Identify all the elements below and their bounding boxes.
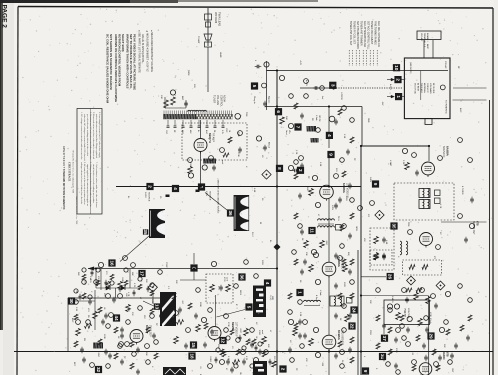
svg-text:voltmeter; AC voltages measure: voltmeter; AC voltages measured with 100… [83,114,86,161]
svg-text:4. Low voltage measured at 117: 4. Low voltage measured at 117 volts ac … [98,112,101,158]
svg-text:● MEASURED REMOTELY SOURCE: ● MEASURED REMOTELY SOURCE [150,30,153,72]
capacitor C-bypass [263,102,267,104]
callout square 22 [348,322,355,329]
svg-text:VHF ANT: VHF ANT [420,33,423,42]
leader to sq13 [143,301,154,306]
volume control inner pin [407,316,412,321]
dashed box discriminator [370,250,392,265]
svg-text:.0047: .0047 [325,240,327,246]
svg-text:RF AMP: RF AMP [211,133,214,142]
svg-text:220K: 220K [103,334,105,339]
pin circles near tube [188,158,193,163]
wire x329 IF chain mid [328,199,330,262]
callout square 1 2nd IF [296,289,303,296]
callout square 4 spine [326,132,333,139]
callout square 2 tuner [394,76,401,83]
svg-text:2. Resistors are 1/2 watt unle: 2. Resistors are 1/2 watt unless noted o… [89,112,92,160]
callout square 37 [381,335,388,342]
leader line from sq36 [205,193,227,211]
sync tube pins [125,342,130,347]
audio out pins [396,328,401,333]
wire from sq30 [75,300,95,302]
callout square 13 [190,341,197,348]
right column pins [458,138,463,143]
svg-text:TO ANT: TO ANT [197,36,200,44]
cluster resistors bottom mid [177,320,184,325]
callout square 8 [276,165,283,172]
svg-text:7. Coil resistance values unde: 7. Coil resistance values under one ohm … [95,162,98,207]
svg-text:Bifocal: Bifocal [268,142,270,149]
svg-text:35: 35 [143,229,148,235]
tube V2 6AU8A 1st video IF [320,185,334,199]
AGC line pin [304,79,309,84]
callout square 2 on bus [146,183,153,190]
svg-text:6: 6 [276,110,281,113]
svg-text:4.5mh: 4.5mh [429,318,431,324]
wire volume box vertical [428,296,430,375]
svg-text:1 MEG: 1 MEG [391,296,393,303]
filled diamond on video bus [274,244,281,251]
leader to W4 [217,310,246,318]
ratio det transformer [400,241,402,255]
svg-text:mmf: mmf [226,277,228,281]
bottom-left caps [82,358,86,360]
wire y70 node row [267,70,278,72]
right column caps [470,198,474,200]
caps bottom mid [184,344,188,346]
callout square 11 [308,227,315,234]
svg-text:12K: 12K [175,280,177,284]
svg-text:AGC: AGC [205,130,208,135]
svg-text:4.5MC: 4.5MC [389,160,391,167]
svg-text:ANT: ANT [181,96,184,101]
3rd IF pins [313,327,318,332]
callout square 12 [219,337,226,344]
callout square 1 on bus [198,183,205,190]
svg-text:TO TUNER(S): TO TUNER(S) [445,100,447,114]
svg-text:+ DENOTES CHNG GANGED TUNING: + DENOTES CHNG GANGED TUNING [217,178,220,214]
resistor bottom mid 2 [244,329,249,336]
callout square 9 above tube [327,151,334,158]
wire tuner input [165,107,186,109]
wire to sound tube [428,146,430,161]
capacitor bottom edge [230,368,234,370]
svg-text:130V: 130V [343,282,345,287]
coil pair IF transformer [318,219,335,221]
open square align [347,298,353,304]
sound IF pin circles [402,148,407,153]
svg-text:6.8K: 6.8K [385,240,387,245]
pin circles sync2 [106,294,111,299]
wire tube down [200,152,202,187]
wire x329 to bottom [328,349,330,375]
svg-text:PH: PH [83,338,85,341]
svg-text:SET AGC CONTROL FULL: SET AGC CONTROL FULL [367,21,370,50]
svg-text:J-PROD: J-PROD [340,92,342,100]
svg-text:COILS FIT: COILS FIT [426,83,428,93]
svg-text:SET ATTENUATOR KNOB: SET ATTENUATOR KNOB [356,21,359,49]
callout square 6 [275,108,282,115]
svg-text:2: 2 [298,169,303,172]
svg-text:PEAK VIDEO SIGNAL AT PICTURE T: PEAK VIDEO SIGNAL AT PICTURE TUBE [133,34,137,90]
arrow to square 1 [387,96,393,98]
diamond sound test [375,210,384,219]
sync resistors [106,282,111,289]
2nd IF pins [313,252,318,257]
top scan edge strip [0,0,130,3]
pin circle w sq [299,156,304,161]
pin circle 3rd IF [288,319,293,324]
wire vertical bus x358 [357,250,359,375]
pin circle above coil [202,165,207,170]
callout square 7 [294,123,301,130]
svg-text:SOURCE: SOURCE [147,192,149,202]
waveform photo W1 [149,209,165,238]
svg-text:AGC: AGC [459,108,462,113]
diamond audio 2 [436,281,445,290]
svg-text:4.5mh: 4.5mh [319,290,321,297]
pin circle low [256,136,261,141]
pin circles sync [98,262,103,267]
svg-text:AGC: AGC [71,318,74,323]
pin circle agc [211,261,216,266]
svg-text:SET TO PRODUCE 30 VOLTS PEAK-T: SET TO PRODUCE 30 VOLTS PEAK-TO- [129,34,133,89]
svg-text:16: 16 [110,260,115,266]
svg-text:33K: 33K [145,352,147,356]
svg-text:6. Voltages shown in boxes tak: 6. Voltages shown in boxes taken with no… [89,162,92,206]
svg-text:.0047: .0047 [239,328,241,334]
resistor grid [309,189,314,196]
extra pin circles scatter [289,94,294,99]
agc box components [210,285,215,292]
resistor bottom edge [272,361,277,367]
svg-text:4: 4 [327,134,332,137]
svg-text:LOW BAND: LOW BAND [429,83,432,94]
svg-text:OR PK: OR PK [318,115,320,122]
svg-text:6BZ6: 6BZ6 [239,290,241,296]
waveform photo W6 bottom [253,361,267,375]
svg-text:AMP: AMP [426,44,429,49]
callout square 2 3rd IF [279,365,286,372]
svg-text:W: W [259,222,261,224]
svg-text:+14V: +14V [299,60,301,66]
border frame right rule [492,8,494,375]
bottom-left filler pins [82,268,86,272]
wire antenna to tuner strip [207,47,209,92]
wire vertical bus x361 [360,146,362,375]
svg-text:22: 22 [350,323,355,329]
svg-text:Chng In: Chng In [253,96,255,104]
svg-text:3.3K: 3.3K [319,162,321,167]
svg-text:GRN: GRN [355,226,357,231]
svg-text:.0047: .0047 [97,352,99,358]
waveform photo W4 [253,286,266,318]
svg-text:330K: 330K [199,302,201,307]
resistor column x348 [345,315,350,322]
svg-text:mmf: mmf [221,160,223,164]
border frame top rule [18,7,493,9]
diode D2 sync [121,286,125,290]
wire vertical x268 upper [266,61,268,110]
capacitor stub [256,65,258,69]
callout square 6 agc [190,264,197,271]
svg-text:WAVEFORMS TAKEN WITH CONTROLS: WAVEFORMS TAKEN WITH CONTROLS [126,34,130,89]
tuner output hatched coil [203,159,216,164]
wire sync vertical [100,269,102,290]
callout square 29 [427,332,434,339]
left margin shading [0,0,3,330]
resistor agc2 [196,325,201,332]
svg-text:5. All controls set at for nor: 5. All controls set at for normal operat… [83,162,86,205]
svg-text:AT REST: AT REST [417,83,420,92]
svg-text:NO 94: NO 94 [223,95,226,103]
svg-text:56K: 56K [285,116,287,120]
pin circles row bottom [220,360,225,365]
dashed box agc [206,274,233,303]
svg-text:AUDIO: AUDIO [442,352,445,360]
svg-text:● SEE PARTS LIST FOR ALTERNAT: ● SEE PARTS LIST FOR ALTERNATE [138,30,141,73]
svg-text:unless otherwise noted and lin: unless otherwise noted and line voltage … [95,114,98,158]
svg-text:12: 12 [221,338,226,344]
svg-text:3. Measured values are from sc: 3. Measured values are from schematic to… [92,112,95,160]
svg-text:6AU8A: 6AU8A [445,146,449,157]
open callout square [336,225,342,231]
svg-text:36: 36 [228,210,233,216]
resistors 2nd IF [309,265,314,272]
capacitor on AGC line [314,86,316,90]
tuner box inner vertical [420,71,422,100]
wire main horizontal bus y186 [116,186,361,188]
border frame left rule [17,7,18,375]
svg-text:45V: 45V [363,238,365,242]
svg-text:1: 1 [298,291,303,294]
svg-text:A-523: A-523 [389,84,392,90]
svg-text:9: 9 [373,183,378,186]
svg-text:105V: 105V [331,205,333,211]
svg-text:6T8: 6T8 [445,352,449,357]
wire x329 IF chain low [328,276,330,335]
svg-text:30: 30 [69,298,74,304]
arrowhead on AGC line [333,87,337,90]
tube pin circles [312,175,317,180]
svg-text:20V AC: 20V AC [444,61,447,69]
svg-text:circuit breaker reset all read: circuit breaker reset all readings are p… [92,164,95,204]
callout square 44 [113,314,120,321]
wire sound takeoff y146 [361,145,429,147]
tuner coil strip checkered section [196,114,233,119]
tube V9 6T8 audio output [419,363,432,375]
hatched peaking coil spine1 [307,126,317,132]
svg-text:mmf: mmf [261,330,263,334]
tube V5 6AU8A 2nd video IF [322,262,336,276]
right column wires [453,87,487,89]
svg-text:135V: 135V [261,260,263,265]
svg-text:A-523: A-523 [305,80,308,86]
svg-text:44: 44 [114,315,119,321]
svg-text:68K: 68K [131,272,133,276]
wire audio [361,295,429,297]
caps 3rd IF [303,334,307,336]
svg-text:AGC ATTENUATOR ADJ: AGC ATTENUATOR ADJ [363,21,366,47]
svg-text:OSC: OSC [225,128,227,133]
svg-text:ROTATION (CONTROL VIEWED FROM: ROTATION (CONTROL VIEWED FROM [118,34,122,87]
svg-text:6CB6A: 6CB6A [337,330,341,341]
resistor bottom mid 4 [262,337,267,344]
pin circle right of strip [235,114,241,120]
svg-text:255V: 255V [369,330,371,335]
svg-text:10K: 10K [160,95,162,99]
tuner caps row [167,120,169,126]
extra small resistors scatter [294,103,298,109]
wire video IF spine upper [265,106,362,108]
svg-text:140V: 140V [369,177,371,183]
svg-text:TUNER RF COIL SET: TUNER RF COIL SET [353,21,355,45]
svg-text:SHAFT END): SHAFT END) [121,34,125,52]
svg-text:24: 24 [352,307,357,313]
volume control box pin [387,304,392,309]
svg-text:4: 4 [265,282,270,285]
pin circles bottom-left [76,320,81,325]
svg-text:per volt voltmeter readings ta: per volt voltmeter readings taken at tub… [86,114,89,156]
svg-text:4.5mh: 4.5mh [315,115,317,122]
VHF antenna terminal board [417,31,441,40]
callout square 13 photo W3 [154,303,160,309]
tube V3 6AU8A sound IF [422,162,435,175]
svg-text:-5 (V)-: -5 (V)- [269,295,271,301]
extra capacitors scatter [300,114,304,116]
pin circles bottom right [412,360,417,365]
svg-text:3RD VIDEO IF: 3RD VIDEO IF [340,330,342,346]
wire sync bus y269 [88,268,277,270]
svg-text:15: 15 [191,342,196,348]
audio caps [405,298,409,300]
pin circles sound lower [358,206,363,211]
pin circle below [311,249,316,254]
pin circles bottom mid [174,311,179,316]
callout square 18 [188,352,195,359]
dashed box ratio det [403,260,442,275]
svg-text:47K: 47K [305,358,307,362]
resistor 56K [280,117,285,124]
callout square 36b [238,273,245,280]
callout square 4 photo [264,279,271,286]
svg-text:TUNER: TUNER [213,95,216,104]
wire AGC line to tuner [300,87,336,89]
volume control box resistor [406,288,412,292]
svg-text:SND: SND [367,118,369,123]
capacitor right of tube [212,166,216,168]
svg-text:OUT: OUT [451,368,453,373]
svg-text:1.5K: 1.5K [343,134,345,139]
svg-text:TUNER ANT COIL SET: TUNER ANT COIL SET [349,21,352,46]
VHF tuner box [404,58,450,119]
numbered notes box [77,109,102,215]
dashed box inner components [228,137,232,143]
svg-text:3.9K: 3.9K [299,312,301,317]
3rd video IF tube V6 6CB6A [322,335,336,349]
IF transformer w box [330,296,344,306]
arrow to square 2 [387,79,393,81]
tube V8 6CG7 sync sep [130,330,143,343]
waveform photo W5 bottom [163,367,186,375]
svg-text:TUNER OSC ADJUST: TUNER OSC ADJUST [370,21,373,45]
callout square 4 on bus [172,185,179,192]
capacitor audio out [425,328,429,330]
svg-text:DC COIL RESISTANCE VALUES UNDE: DC COIL RESISTANCE VALUES UNDER ONE OHM [106,34,110,104]
svg-text:1 MEG: 1 MEG [89,276,91,283]
svg-text:4.7K: 4.7K [439,204,441,209]
svg-text:5: 5 [247,306,252,309]
arrowhead sync bus [89,267,95,270]
peaking coil [304,300,321,302]
grid components [185,100,187,108]
svg-text:NOT SHOWN ON SCHEMATIC DIAGRAM: NOT SHOWN ON SCHEMATIC DIAGRAM [109,34,113,90]
tube V7 6CB6 1st video IF amp [208,327,221,340]
svg-text:AGC DIAL SCHEME CO: AGC DIAL SCHEME CO [377,21,380,47]
svg-text:25C/070 (B): 25C/070 (B) [414,83,416,94]
callout square 30 [68,297,75,304]
audio resistors [414,293,419,300]
diamond audio 1 [407,276,416,285]
capacitor bottom mid 2 [250,343,254,345]
callout square 16 [108,259,115,266]
callout square 2 video bus [297,167,304,174]
svg-text:TUN: TUN [245,112,247,117]
diode D1 sync [106,286,110,290]
svg-text:BOARD: BOARD [426,33,429,41]
resistor bottom mid 3 [233,360,240,365]
audio resistors 2 [396,313,401,320]
wire y222 right [441,221,487,223]
svg-text:OSC: OSC [165,130,167,135]
svg-text:TERMINAL: TERMINAL [423,33,426,44]
svg-text:1wf: 1wf [321,96,323,100]
wire agc to bus [193,272,195,281]
stubs into tuner box [401,79,405,81]
resistor 100K at tuner input [171,97,176,105]
svg-text:FINE TUNING RANGE: FINE TUNING RANGE [374,21,377,45]
svg-text:255V: 255V [217,344,219,349]
svg-text:300 OHM: 300 OHM [214,12,218,23]
callout square 1 tuner [395,93,402,100]
pin circle node B1 [264,62,269,67]
svg-text:2.2K: 2.2K [295,150,297,155]
resistors below [304,241,309,248]
tube V4 6T8 sound detector [420,233,433,246]
svg-text:270K: 270K [227,322,229,327]
bottom-left short wires [114,288,116,298]
svg-text:10K: 10K [305,252,307,256]
svg-text:RF CHOKE: RF CHOKE [432,83,434,94]
pin circles audio [402,288,407,293]
dashed box quad detector [370,228,394,270]
wire x329 between squares [328,158,330,185]
bottom-left filler resistors [82,274,86,280]
sync caps [112,298,116,300]
wire grid T6 [214,295,216,326]
tube V1 6BQ7A RF amplifier [194,139,207,152]
svg-text:voltages shown in boxes all ta: voltages shown in boxes all taken from t… [80,162,83,205]
waveform photo W3 [160,292,176,326]
svg-text:2: 2 [281,368,286,371]
svg-text:4: 4 [173,187,178,190]
tuner coil strip solid section [163,114,196,119]
wire bottom bus y351 [14,351,493,353]
diamond sync [148,283,157,292]
junction dots [276,350,278,352]
svg-text:6.8K: 6.8K [253,188,255,193]
waveform photo W2 [234,195,250,231]
